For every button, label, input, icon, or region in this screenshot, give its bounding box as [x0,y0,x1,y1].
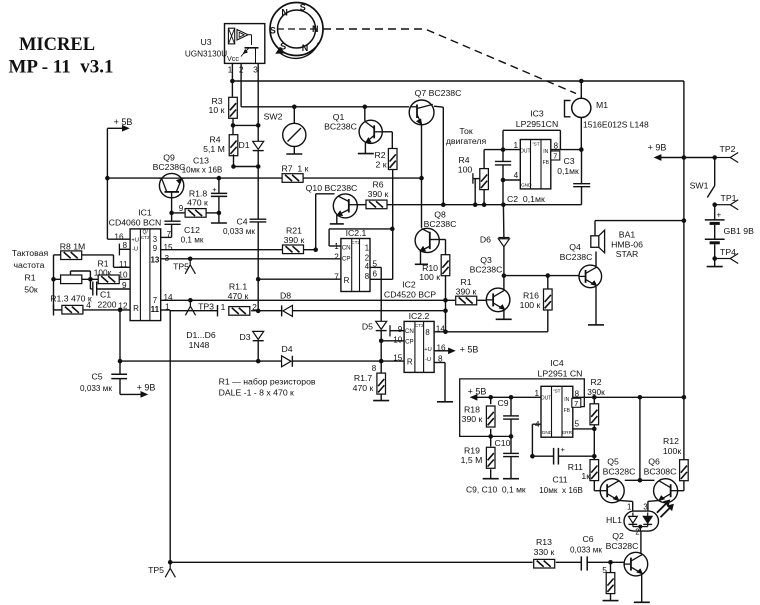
svg-text:SW2: SW2 [264,112,283,122]
svg-text:CN: CN [342,245,351,252]
svg-text:TP1: TP1 [721,193,737,203]
svg-text:5: 5 [602,565,607,575]
svg-text:R1.3 470 к: R1.3 470 к [50,294,92,304]
svg-text:Ток: Ток [459,126,472,136]
svg-text:HL1: HL1 [606,515,622,525]
svg-text:R7 1 к: R7 1 к [282,164,309,174]
svg-text:7: 7 [334,273,339,282]
svg-text:9: 9 [398,325,403,334]
svg-text:+ 9В: + 9В [137,383,156,393]
svg-text:D8: D8 [280,291,291,301]
svg-text:R1.7: R1.7 [354,373,373,383]
svg-text:C9, C10 0,1 мк: C9, C10 0,1 мк [466,485,526,495]
svg-text:+ 5В: + 5В [460,344,479,354]
svg-text:1к: 1к [581,471,590,481]
svg-text:R: R [133,304,139,313]
svg-text:BA1: BA1 [619,230,636,240]
svg-text:1516E012S L148: 1516E012S L148 [583,120,649,130]
svg-text:GB1 9В: GB1 9В [724,226,755,236]
svg-text:S: S [300,3,306,13]
svg-text:390 к: 390 к [284,235,305,245]
svg-text:MP - 11 v3.1: MP - 11 v3.1 [8,57,113,78]
svg-text:3: 3 [643,502,647,511]
svg-text:DALE -1 - 8 х 470 к: DALE -1 - 8 х 470 к [219,388,294,398]
svg-text:470 к: 470 к [187,198,208,208]
svg-text:100: 100 [458,165,473,175]
svg-text:1N48: 1N48 [189,340,210,350]
svg-text:BC238C: BC238C [324,122,357,132]
svg-text:7: 7 [167,230,172,239]
svg-text:GND: GND [542,430,553,436]
svg-text:+ 9В: + 9В [648,143,667,153]
svg-text:-U: -U [132,247,138,253]
svg-text:D5: D5 [362,322,373,332]
svg-text:5: 5 [575,420,580,429]
svg-text:0,033 мк: 0,033 мк [570,546,602,555]
svg-text:4: 4 [514,171,519,180]
svg-text:LP2951CN: LP2951CN [516,119,559,129]
svg-text:BC308C: BC308C [644,467,677,477]
svg-text:100 к: 100 к [520,300,541,310]
svg-text:R4: R4 [458,155,469,165]
svg-text:IC1: IC1 [138,208,152,218]
svg-text:470 к: 470 к [228,291,249,301]
svg-text:GND: GND [521,183,532,189]
svg-text:R4: R4 [209,135,220,145]
svg-text:0,1мк: 0,1мк [557,166,579,176]
svg-text:N: N [281,8,288,18]
svg-text:R8 1М: R8 1М [60,242,86,252]
svg-text:13: 13 [150,256,159,265]
svg-text:1: 1 [221,302,226,312]
svg-text:UGN3130U: UGN3130U [185,50,227,59]
svg-text:100 к: 100 к [419,272,440,282]
svg-text:2: 2 [635,528,639,537]
svg-text:R2: R2 [374,150,385,160]
svg-text:CN: CN [405,328,414,335]
svg-text:1: 1 [627,502,631,511]
svg-text:STAR: STAR [616,249,639,259]
svg-text:IC4: IC4 [550,358,564,368]
svg-text:100к: 100к [94,268,112,278]
svg-text:0,1 мк: 0,1 мк [181,236,204,245]
svg-text:C10: C10 [495,438,511,448]
svg-text:15: 15 [393,354,403,363]
svg-text:C13: C13 [193,156,209,166]
svg-text:9: 9 [153,244,157,253]
svg-text:CT2: CT2 [141,235,150,240]
svg-text:Q4: Q4 [569,242,581,252]
svg-text:C9: C9 [498,398,509,408]
svg-text:R6: R6 [372,180,383,190]
svg-text:N: N [312,24,319,34]
svg-text:390 к: 390 к [456,287,477,297]
svg-text:2 к: 2 к [375,160,386,170]
svg-text:CD4520 BCP: CD4520 BCP [384,290,436,300]
svg-text:частота: частота [14,260,45,270]
svg-text:D1...D6: D1...D6 [186,330,216,340]
svg-text:+ 5В: + 5В [114,117,133,127]
svg-text:OUT: OUT [520,149,531,155]
svg-text:R1.1: R1.1 [229,282,248,292]
svg-text:BC238C: BC238C [560,252,593,262]
svg-text:BC328C: BC328C [606,541,639,551]
svg-text:C3: C3 [563,156,574,166]
svg-text:D6: D6 [480,235,491,245]
svg-text:3: 3 [153,235,157,244]
svg-text:Q3: Q3 [480,255,492,265]
svg-text:3: 3 [253,65,258,75]
svg-text:390к: 390к [587,387,605,397]
svg-text:470 к: 470 к [353,383,374,393]
svg-text:+: + [717,211,722,220]
svg-text:7: 7 [553,152,557,161]
svg-text:Q6: Q6 [648,457,660,467]
svg-text:+: + [212,185,217,194]
svg-text:R1: R1 [460,277,471,287]
svg-text:1: 1 [513,141,518,150]
svg-text:C12: C12 [184,225,200,235]
svg-text:4: 4 [365,262,370,271]
svg-text:15: 15 [164,243,174,252]
svg-text:TP4: TP4 [720,247,736,257]
svg-text:6: 6 [373,270,378,279]
svg-text:1: 1 [365,244,369,253]
svg-text:HMB-06: HMB-06 [611,240,643,250]
svg-text:R16: R16 [523,291,539,301]
svg-text:CP: CP [405,339,414,346]
svg-text:IC2.2: IC2.2 [409,311,430,321]
svg-text:IN: IN [564,397,569,403]
svg-text:двигателя: двигателя [446,136,487,146]
svg-text:2: 2 [334,252,339,261]
svg-text:C2 0,1мк: C2 0,1мк [507,194,545,204]
svg-text:Q1: Q1 [333,112,345,122]
svg-text:D4: D4 [281,344,292,354]
svg-text:R1: R1 [24,273,35,283]
svg-text:C4: C4 [236,217,247,227]
svg-text:0,033 мк: 0,033 мк [223,227,255,236]
svg-text:"ST: "ST [553,388,561,393]
svg-text:"ST: "ST [532,141,540,146]
svg-text:+ 5В: + 5В [468,386,487,396]
svg-text:R21: R21 [286,226,302,236]
svg-text:8: 8 [372,364,377,373]
svg-text:S: S [270,26,276,36]
svg-text:Q9: Q9 [163,153,175,163]
svg-text:BC238C: BC238C [470,265,503,275]
svg-text:N: N [302,43,309,53]
svg-text:LP2951 CN: LP2951 CN [538,369,583,379]
svg-text:CP: CP [342,256,351,263]
svg-text:+: + [561,445,566,454]
svg-text:2200: 2200 [98,300,117,310]
svg-text:MICREL: MICREL [19,35,95,55]
svg-text:390 к: 390 к [368,189,389,199]
svg-text:OUT: OUT [541,396,552,402]
svg-text:C11: C11 [552,475,567,485]
svg-text:FB: FB [564,408,571,414]
svg-text:D1: D1 [238,140,249,150]
svg-text:390 к: 390 к [462,414,483,424]
svg-text:BC238C: BC238C [424,219,457,229]
svg-text:7: 7 [153,296,157,305]
svg-text:8: 8 [122,241,127,250]
svg-text:BC328C: BC328C [603,467,636,477]
svg-text:Q10 BC238C: Q10 BC238C [306,183,358,193]
svg-text:Q7 BC238C: Q7 BC238C [415,88,462,98]
svg-text:100к: 100к [663,446,681,456]
svg-text:CT2: CT2 [351,240,360,245]
svg-text:TP5: TP5 [148,565,164,575]
svg-text:IN: IN [543,149,548,155]
svg-text:CD4060 BCN: CD4060 BCN [109,218,162,228]
svg-text:C6: C6 [582,534,593,544]
svg-text:R2: R2 [590,377,601,387]
svg-text:10 к: 10 к [209,105,225,115]
svg-text:Vcc: Vcc [227,54,239,63]
svg-text:Q8: Q8 [434,210,446,220]
svg-text:M1: M1 [596,100,608,110]
svg-text:7: 7 [574,399,578,408]
svg-text:IC3: IC3 [530,109,544,119]
svg-text:10мк х 16В: 10мк х 16В [539,486,583,495]
svg-text:Q2: Q2 [612,531,624,541]
svg-text:8: 8 [365,272,369,281]
svg-text:50к: 50к [24,285,38,295]
svg-text:IC2: IC2 [402,280,416,290]
svg-text:U3: U3 [200,37,211,47]
svg-text:Q5: Q5 [607,457,619,467]
svg-text:R: R [344,276,350,285]
svg-text:TP2: TP2 [720,144,736,154]
svg-text:R1 — набор резисторов: R1 — набор резисторов [219,377,316,387]
svg-text:10мк х 16В: 10мк х 16В [182,166,223,175]
svg-text:5,1 М: 5,1 М [203,144,225,154]
svg-text:CT2: CT2 [415,323,424,328]
svg-text:330 к: 330 к [534,547,555,557]
svg-text:11: 11 [151,305,160,314]
svg-text:+U: +U [131,238,139,244]
svg-text:Тактовая: Тактовая [12,248,49,258]
svg-text:TP5: TP5 [173,262,189,272]
svg-text:8: 8 [425,328,429,337]
svg-text:SW1: SW1 [690,181,709,191]
svg-text:FB: FB [543,160,550,166]
svg-text:R: R [407,358,413,367]
svg-text:10: 10 [393,336,403,345]
svg-text:-U: -U [425,357,431,363]
svg-text:C5: C5 [91,372,102,382]
svg-text:1,5 М: 1,5 М [461,455,483,465]
svg-text:C1: C1 [100,290,111,300]
svg-text:R18: R18 [464,405,480,415]
svg-text:R12: R12 [663,436,679,446]
svg-text:ERR: ERR [562,430,573,436]
svg-text:0,033 мк: 0,033 мк [80,384,112,393]
svg-text:R19: R19 [464,446,480,456]
svg-text:9: 9 [179,204,184,213]
svg-text:R13: R13 [536,537,552,547]
svg-text:BC238C: BC238C [153,162,186,172]
svg-text:+U: +U [424,347,432,353]
svg-text:D3: D3 [239,332,250,342]
